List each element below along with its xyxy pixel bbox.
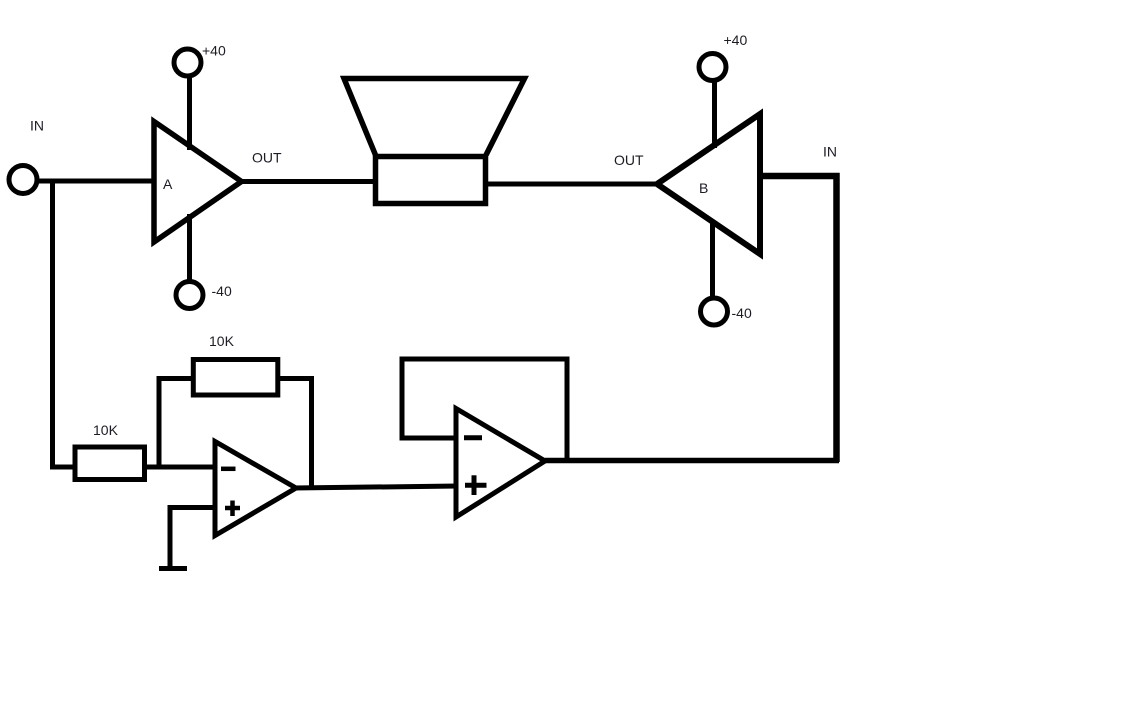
- U1 plus sign: [225, 506, 240, 511]
- wire IN node down-left rail: [53, 181, 78, 467]
- wire U1 output to U2 non-inverting input: [294, 486, 458, 488]
- svg-text:10K: 10K: [93, 422, 119, 438]
- svg-text:10K: 10K: [209, 333, 235, 349]
- wire speaker to amp B: [485, 182, 659, 187]
- svg-text:+40: +40: [202, 43, 226, 59]
- speaker cone: [344, 79, 525, 156]
- svg-text:IN: IN: [823, 144, 837, 160]
- wire feedback right (R2 to U1 output): [276, 379, 312, 491]
- U2 minus sign: [464, 435, 482, 440]
- op-amp U1: [215, 442, 296, 536]
- wire U1 non-inverting input to ground: [170, 508, 215, 567]
- wire R1 to op-amp U1 inverting input: [143, 465, 218, 470]
- op-amp U2: [456, 409, 545, 518]
- power terminal -40 (amp A): [176, 282, 203, 309]
- U2 plus sign: [465, 483, 487, 488]
- svg-text:A: A: [163, 176, 173, 192]
- wire feedback left (junction to R2): [159, 379, 195, 468]
- wire -40 to amp A: [187, 214, 192, 282]
- svg-text:B: B: [699, 180, 708, 196]
- wire -40 to amp B: [710, 220, 715, 298]
- svg-text:OUT: OUT: [252, 150, 282, 166]
- svg-text:-40: -40: [732, 305, 752, 321]
- wire IN to amp A input: [37, 179, 157, 184]
- speaker body: [376, 157, 486, 204]
- amplifier B: [657, 114, 760, 254]
- power terminal +40 (amp A): [174, 49, 201, 76]
- svg-text:-40: -40: [212, 283, 232, 299]
- svg-text:IN: IN: [30, 118, 44, 134]
- wire +40 to amp A: [187, 76, 192, 150]
- svg-text:OUT: OUT: [614, 152, 644, 168]
- amplifier A: [154, 122, 242, 243]
- node IN terminal: [9, 166, 37, 194]
- svg-text:+40: +40: [724, 32, 748, 48]
- U1 minus sign: [221, 467, 236, 472]
- resistor R2 10K (feedback): [193, 360, 277, 396]
- wire U2 feedback loop: [402, 359, 567, 461]
- wire amp A output to speaker: [241, 179, 377, 184]
- ground: [159, 566, 187, 571]
- resistor R1 10K: [75, 447, 145, 480]
- wire +40 to amp B: [712, 81, 717, 149]
- power terminal +40 (amp B): [699, 54, 726, 81]
- power terminal -40 (amp B): [701, 298, 728, 325]
- wire amp B input from right rail: [760, 176, 837, 462]
- wire U2 output to right rail: [545, 458, 839, 464]
